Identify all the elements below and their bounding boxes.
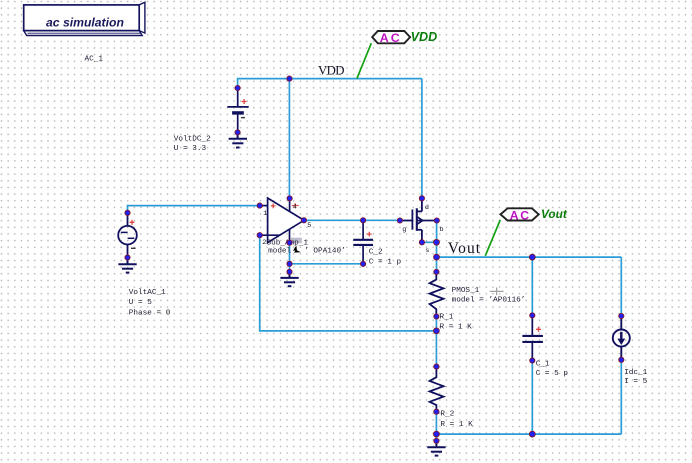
junction Vout at PMOS branch [434,254,440,260]
label Sub_Amp_1 [291,238,302,243]
node op-amp pin2 [257,233,262,238]
node ground op-amp [287,269,292,274]
svg-text:C_1: C_1 [536,360,550,368]
svg-text:AC: AC [510,208,531,222]
wire bottom horizontal [436,433,621,435]
svg-text:C_2: C_2 [369,248,383,256]
svg-text:VDD: VDD [318,64,344,78]
junction C_1 top on Vout wire [529,254,535,260]
node battery bottom [235,130,240,135]
node PMOS gate [397,218,402,223]
junction VDD wire [287,76,292,81]
node PMOS bulk [434,218,439,223]
node VoltAC_1 bottom [125,255,130,260]
svg-text:model = ’AP0116’: model = ’AP0116’ [452,296,526,304]
junction feedback [434,328,440,334]
wire op-amp pin2 feedback [260,235,437,331]
op-amp pin4 red plus [292,203,299,208]
PMOS arrow [417,217,422,224]
VoltAC_1 plus sign [130,220,135,225]
wire R_2 to ground [435,412,437,441]
wire op-amp pin3 to ground [289,243,291,272]
svg-text:VDD: VDD [411,30,438,44]
wire Idc_1 top drop [620,257,622,316]
svg-text:Idc_1: Idc_1 [624,369,647,377]
svg-text:VoltAC_1: VoltAC_1 [129,289,166,297]
battery plus sign [242,99,247,104]
svg-text:b: b [440,226,444,234]
ground (R_2) [427,441,445,456]
svg-text:R = 1 K: R = 1 K [440,421,473,429]
svg-text:1: 1 [263,210,267,218]
svg-text:U = 5: U = 5 [129,299,152,307]
node op-amp pin3 [287,240,292,245]
wire Vout horizontal [437,256,622,258]
junction C_1 bottom wire [529,431,535,437]
ground (VoltAC_1) [118,258,136,273]
wire VDD horizontal [238,79,422,87]
voltage source VoltDC_2 (battery) [227,88,248,132]
C2 plus sign [367,232,372,237]
simulation box AC_1 (ac simulation) [24,2,145,35]
node battery top [235,85,240,90]
transistor PMOS M1 [400,198,437,242]
wire C_1 bottom drop [531,361,533,435]
node VoltAC_1 top [125,210,130,215]
svg-text:5: 5 [307,222,311,230]
svg-text:R_2: R_2 [440,411,454,419]
svg-text:U = 3.3: U = 3.3 [174,145,207,153]
junction bottom wire [434,431,440,437]
node op-amp pin4 [287,196,292,201]
crosshair cursor [490,288,504,296]
svg-text:Vout: Vout [448,240,481,257]
Idc_1 arrow head [617,339,625,345]
current source Idc_1 [613,316,630,360]
node C_1 top [530,313,535,318]
svg-text:s: s [425,247,429,255]
resistor R1 [430,272,444,317]
wire R_1 to R_2 [435,317,437,367]
svg-text:g: g [402,226,406,234]
AC marker Vout [485,207,568,256]
svg-text:4: 4 [293,204,297,212]
wire PMOS source to bulk junction [422,241,437,243]
junction C_2 bottom wire [287,261,292,266]
capacitor C2 [353,220,373,264]
svg-text:I = 5: I = 5 [624,378,647,386]
ground (VoltDC_2) [229,132,247,147]
wire C_1 top drop [531,257,533,315]
svg-text:Vout: Vout [541,207,568,221]
svg-text:C = 5 p: C = 5 p [536,370,569,378]
svg-text:’ OPA140’: ’ OPA140’ [304,247,346,255]
node op-amp pin1 [257,203,262,208]
AC marker VDD [357,30,437,79]
voltage source VoltAC_1 [118,213,137,258]
wire from VoltAC_1 to op-amp pin1 [128,206,260,213]
svg-text:R = 1 K: R = 1 K [440,323,473,331]
wire VDD to PMOS drain [421,79,423,199]
resistor R2 [430,367,444,412]
svg-text:model: model [268,247,291,255]
junction source-bulk [434,239,440,245]
wire Idc_1 bottom drop [620,360,622,434]
svg-text:Phase = 0: Phase = 0 [129,309,171,317]
svg-text:C = 1 p: C = 1 p [369,258,402,266]
ground (op-amp pin3) [280,272,298,286]
node R_2 bottom [434,409,439,414]
node Idc_1 top [619,313,624,318]
svg-text:PMOS_1: PMOS_1 [452,287,480,295]
svg-text:AC: AC [380,31,402,45]
wire C_2 bottom to op-amp ground node [290,263,364,265]
node PMOS source [419,240,424,245]
node op-amp pin5 output [301,218,306,223]
mouse cursor arrow [293,245,301,252]
svg-text:VoltDC_2: VoltDC_2 [174,135,211,143]
C1 plus sign [536,327,541,332]
node dots [125,76,624,444]
wire VDD to op-amp pin4 [288,79,290,199]
wire op-amp output to PMOS gate [304,219,400,221]
node C_2 bottom [361,261,366,266]
battery minus sign [241,117,245,119]
node R_1 bottom [434,314,439,319]
node R_1 top [434,269,439,274]
wire source junction down to Vout node and R_1 [436,242,438,272]
node PMOS drain [419,196,424,201]
svg-text:ac simulation: ac simulation [46,16,124,30]
svg-text:AC_1: AC_1 [85,55,104,63]
op-amp U1 Sub_Amp_1 [260,198,304,243]
op-amp plus input marker [271,204,276,209]
wire PMOS bulk drop [436,220,438,242]
node Idc_1 bottom [619,357,624,362]
node R_2 top [434,364,439,369]
svg-text:d: d [425,204,429,212]
node ground R_2 [434,438,439,443]
capacitor C1 [522,315,543,360]
node C_1 bottom [530,358,535,363]
junction C_2 top [361,218,366,223]
svg-text:R_1: R_1 [440,314,454,322]
VoltAC_1 minus sign [131,247,136,249]
